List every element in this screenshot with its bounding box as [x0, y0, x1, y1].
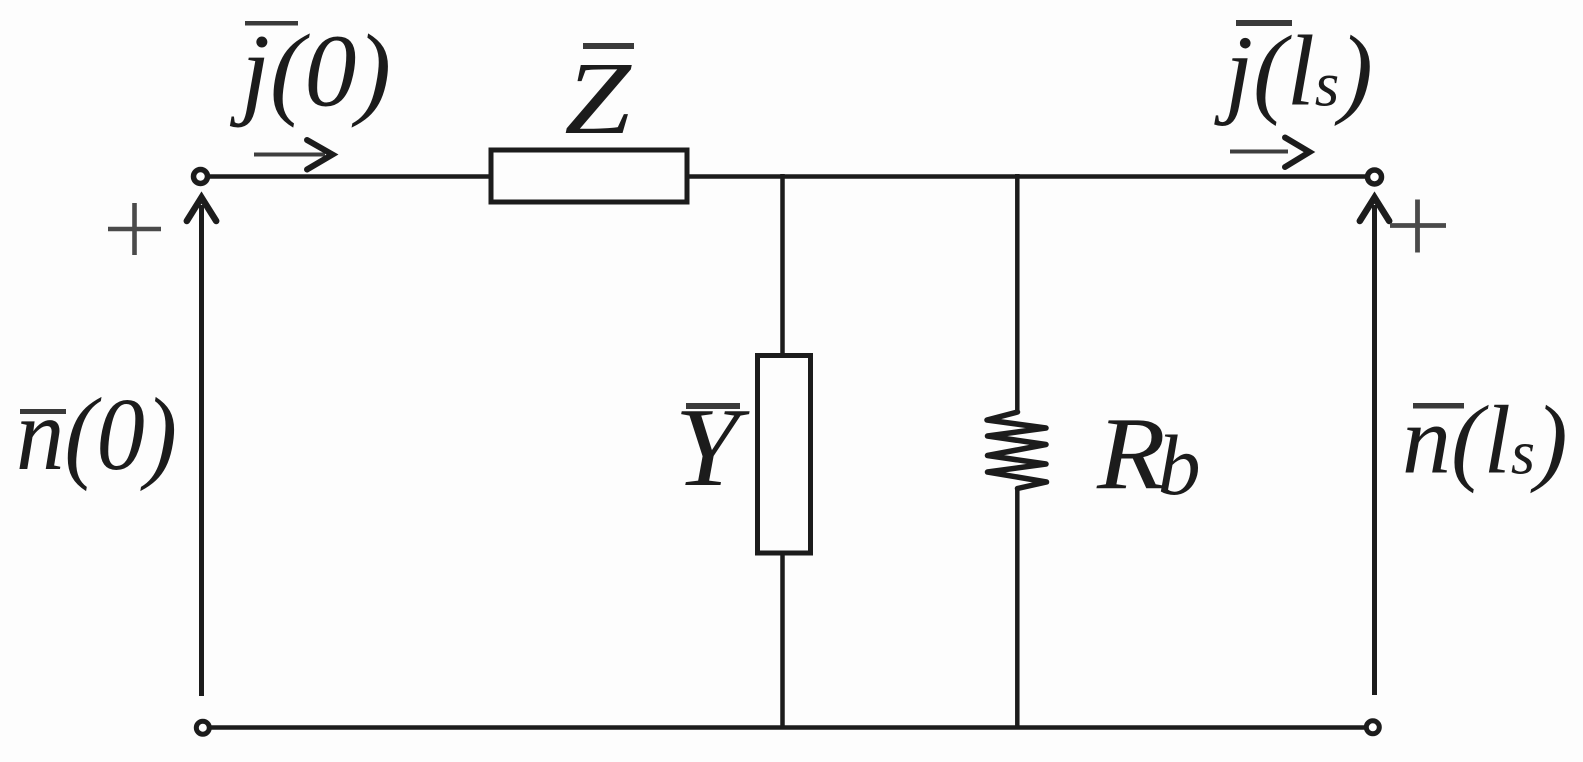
svg-text:b: b	[1158, 417, 1201, 513]
node terminal top-left	[194, 170, 208, 184]
resistor Rb zigzag	[987, 412, 1047, 489]
current arrow j(0) head	[307, 140, 333, 170]
admittance Y (shunt box)	[758, 356, 811, 554]
overline of Y	[686, 403, 740, 409]
overline of n(ls)	[1413, 403, 1464, 409]
wire Y-branch upper	[780, 174, 785, 357]
overline of n(0)	[20, 409, 66, 414]
plus sign right	[1390, 200, 1446, 253]
voltage arrow n(ls) shaft	[1372, 205, 1377, 695]
wire Rb-branch upper	[1015, 174, 1020, 413]
wire Rb-branch lower	[1015, 488, 1020, 729]
svg-text:n(ls): n(ls)	[1402, 387, 1568, 495]
voltage arrow n(ls) head	[1360, 198, 1389, 222]
svg-text:Z: Z	[564, 41, 632, 156]
current arrow j(ls) shaft	[1230, 150, 1288, 154]
svg-text:j(0): j(0)	[229, 14, 391, 129]
overline of j(ls)	[1236, 20, 1292, 26]
svg-text:j(ls): j(ls)	[1214, 15, 1373, 127]
wire Y-branch lower	[780, 551, 785, 729]
voltage arrow n(0) head	[187, 198, 216, 222]
overline of Z	[583, 43, 634, 49]
svg-text:n(0): n(0)	[16, 377, 177, 492]
overline of j(0)	[245, 21, 298, 26]
node terminal bottom-right	[1366, 721, 1379, 734]
plus sign left	[108, 203, 161, 255]
svg-text:R: R	[1096, 397, 1166, 511]
wire top-left segment	[208, 174, 493, 179]
current arrow j(ls) head	[1285, 138, 1310, 168]
node terminal top-right	[1368, 170, 1382, 184]
node terminal bottom-left	[196, 721, 209, 734]
current arrow j(0) shaft	[254, 153, 325, 157]
wire top-right segment	[685, 174, 1366, 179]
impedance Z (series box)	[491, 150, 687, 202]
voltage arrow n(0) shaft	[199, 205, 204, 696]
wire bottom	[210, 725, 1365, 730]
